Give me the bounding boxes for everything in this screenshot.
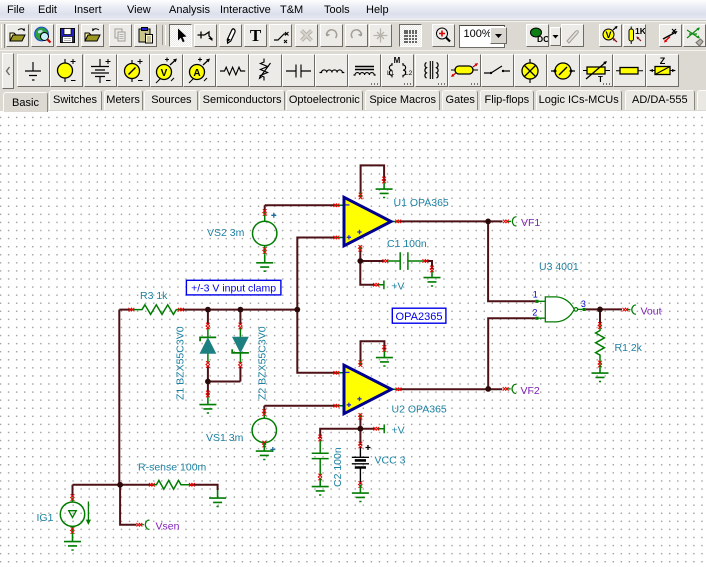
label +V at U1 xyxy=(391,281,404,293)
wire Z2 top stub xyxy=(239,310,241,325)
label VS1 3m xyxy=(206,432,244,444)
ground below C2 xyxy=(312,479,329,496)
label VCC 3 xyxy=(375,454,406,466)
label VS2 3m xyxy=(207,227,245,239)
label C1 100n xyxy=(387,238,427,250)
wire U3 pin2 to VF2 node xyxy=(488,318,535,389)
resistor R1 xyxy=(596,322,605,367)
wire U3 output to Vout xyxy=(586,308,622,310)
label IG1 xyxy=(37,512,54,524)
label C2 100n xyxy=(332,447,344,487)
current source IG1 xyxy=(60,494,91,533)
label U2 OPA365 xyxy=(392,404,447,416)
wire left vertical R3 to R-sense node xyxy=(118,310,120,485)
junction clamp bus right xyxy=(294,307,300,313)
svg-text:Vsen: Vsen xyxy=(156,520,180,532)
menu bar xyxy=(0,0,706,21)
svg-text:R3 1k: R3 1k xyxy=(140,290,168,302)
wire sense node to Vsen jumper xyxy=(120,485,136,525)
pin number 2 xyxy=(532,307,537,317)
svg-text:IG1: IG1 xyxy=(37,512,54,524)
junction U2 supply node xyxy=(358,426,364,432)
label Vout xyxy=(641,305,662,317)
svg-text:VF1: VF1 xyxy=(521,217,540,229)
label U3 4001 xyxy=(539,261,579,273)
junction Vout node xyxy=(597,307,603,313)
ground below VCC xyxy=(352,485,369,502)
wire IG1 to sense node xyxy=(73,485,121,497)
component tabs xyxy=(0,89,706,111)
junction U1 supply node xyxy=(357,258,363,264)
wire zener anodes to ground node xyxy=(208,366,241,397)
wire U1 supply to C1 xyxy=(360,261,432,269)
text box OPA2365 xyxy=(392,308,446,323)
svg-text:Z1 BZX55C3V0: Z1 BZX55C3V0 xyxy=(175,326,187,400)
wire VS1 to U2 non-inverting input xyxy=(264,406,335,413)
svg-text:VF2: VF2 xyxy=(521,385,540,397)
junction sense node xyxy=(117,482,123,488)
label R3 1k xyxy=(140,290,168,302)
voltage source VS1 xyxy=(252,409,276,452)
ground right of C1 xyxy=(424,266,441,286)
label +V at U2 xyxy=(392,425,405,437)
pin number 3 xyxy=(581,299,586,309)
wire Z1 top stub xyxy=(207,310,209,325)
svg-text:VS1 3m: VS1 3m xyxy=(206,432,244,444)
op-amp U2 xyxy=(334,361,402,420)
ground below IG1 xyxy=(64,534,81,551)
ground above U2 xyxy=(376,345,393,366)
junction VF1 node xyxy=(485,219,491,225)
label Z2 BZX55C3V0 xyxy=(257,326,269,400)
ground above U1 xyxy=(376,177,393,198)
voltage source VS2 xyxy=(253,209,277,254)
wire U2 output to VF2 xyxy=(400,388,503,390)
wire clamp bus to U2 inverting input xyxy=(297,310,335,373)
pin number 1 xyxy=(533,289,538,299)
svg-text:C2 100n: C2 100n xyxy=(332,447,344,487)
junction Z1 top xyxy=(205,307,211,313)
svg-text:C1 100n: C1 100n xyxy=(387,238,427,250)
svg-text:U3 4001: U3 4001 xyxy=(539,261,579,273)
wire U1 non-inverting input to clamp bus xyxy=(297,238,335,310)
ground right of R-sense xyxy=(209,490,226,507)
label VF2 xyxy=(521,385,540,397)
capacitor C2 xyxy=(312,435,329,480)
svg-text:OPA2365: OPA2365 xyxy=(396,311,443,323)
junction Z2 top xyxy=(238,307,244,313)
svg-text:Vout: Vout xyxy=(641,305,662,317)
svg-text:3: 3 xyxy=(581,299,586,309)
jumper Vsen xyxy=(137,520,150,529)
jumper Vout xyxy=(623,305,637,314)
svg-text:U2 OPA365: U2 OPA365 xyxy=(392,404,447,416)
label VF1 xyxy=(521,217,540,229)
ground below VS1 xyxy=(256,443,273,460)
capacitor C1 xyxy=(383,252,429,270)
wire U2 positive supply to ground xyxy=(361,341,385,365)
svg-text:VCC 3: VCC 3 xyxy=(375,454,406,466)
resistor R3 xyxy=(129,305,184,315)
label R-sense 100m xyxy=(138,462,207,474)
wire supply node to VCC battery xyxy=(359,429,361,445)
svg-text:1: 1 xyxy=(533,289,538,299)
svg-text:+V: +V xyxy=(391,281,404,293)
wire clamp bus xyxy=(119,309,297,311)
svg-text:Z2 BZX55C3V0: Z2 BZX55C3V0 xyxy=(257,326,269,400)
wire VS2 to U1 inverting input xyxy=(265,205,336,212)
junction zener anode node xyxy=(205,379,211,385)
ground below zeners xyxy=(199,391,216,413)
wire R-sense leads xyxy=(120,485,218,490)
label Vsen xyxy=(156,520,180,532)
zener diode Z1 xyxy=(200,323,216,368)
toolbar 2 xyxy=(0,50,706,90)
ground below VS2 xyxy=(256,255,273,272)
label Z1 BZX55C3V0 xyxy=(175,326,187,400)
toolbar 1 xyxy=(0,21,706,51)
svg-text:R1 2k: R1 2k xyxy=(615,342,643,354)
text box +/-3 V input clamp xyxy=(186,280,281,295)
wire U1 positive supply to ground xyxy=(361,165,385,197)
jumper VF2 xyxy=(503,384,516,393)
svg-text:2: 2 xyxy=(532,307,537,317)
+V jumper at U2 xyxy=(373,424,384,433)
svg-text:U1 OPA365: U1 OPA365 xyxy=(394,197,449,209)
wire Vout node to R1 xyxy=(599,309,601,324)
resistor R-sense xyxy=(149,480,195,489)
junction VF2 node xyxy=(485,386,491,392)
zener diode Z2 xyxy=(232,323,249,368)
svg-text:VS2 3m: VS2 3m xyxy=(207,227,245,239)
+V jumper at U1 xyxy=(373,281,384,290)
wire supply node to C2 xyxy=(320,429,360,438)
svg-text:+V: +V xyxy=(392,425,405,437)
NOR gate U3 xyxy=(535,297,585,322)
ground below R1 xyxy=(592,365,609,382)
svg-text:+/-3 V input clamp: +/-3 V input clamp xyxy=(191,283,276,295)
wire U2 negative supply to +V jumper xyxy=(360,414,374,429)
label R1 2k xyxy=(615,342,643,354)
wire U1 negative supply to +V jumper xyxy=(360,246,374,285)
wire VF1 node to U3 pin1 xyxy=(488,221,535,301)
battery VCC xyxy=(352,442,371,488)
label U1 OPA365 xyxy=(394,197,449,209)
op-amp U1 xyxy=(334,193,402,252)
wire U1 output to VF1 xyxy=(400,220,503,222)
svg-text:R-sense 100m: R-sense 100m xyxy=(138,462,207,474)
jumper VF1 xyxy=(503,217,517,226)
